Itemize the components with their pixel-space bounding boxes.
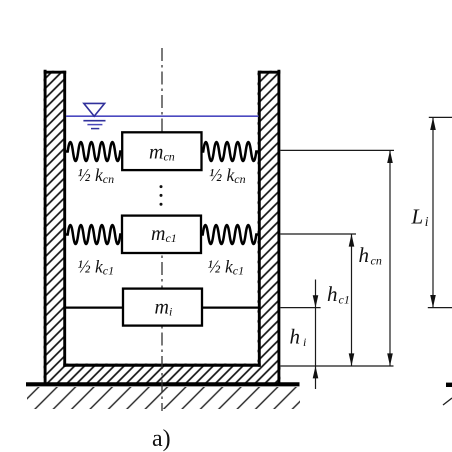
svg-text:½ kcn: ½ kcn: [78, 165, 115, 186]
svg-text:hi: hi: [290, 325, 307, 349]
svg-text:½ kc1: ½ kc1: [208, 257, 245, 278]
svg-text:½ kcn: ½ kcn: [209, 165, 246, 186]
svg-text:½ kc1: ½ kc1: [78, 257, 115, 278]
svg-text:hcn: hcn: [359, 243, 382, 267]
svg-text:Li: Li: [411, 205, 429, 230]
svg-text:a): a): [152, 426, 171, 452]
svg-text:hc1: hc1: [327, 282, 350, 306]
